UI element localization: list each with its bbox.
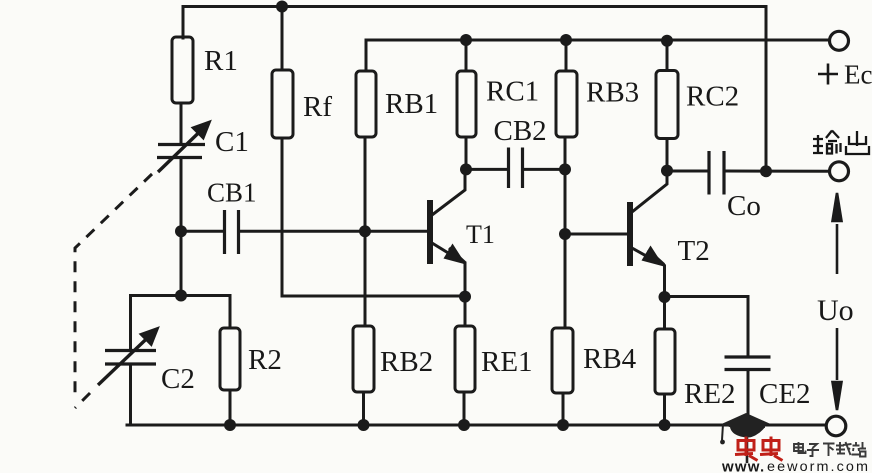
wire RB3 RB4 column [564, 137, 567, 328]
node C2 R2 [175, 290, 187, 302]
wire C2 R2 horizontal [131, 296, 231, 329]
terminal +Ec [830, 31, 849, 50]
dashed gang link line [75, 174, 152, 408]
wire C1 to CB1 node lead [180, 158, 183, 296]
svg-text:T1: T1 [466, 220, 495, 249]
wire RC1 bottom lead [465, 137, 468, 169]
capacitor C2 (variable) [105, 351, 156, 365]
node RE1 bottom [458, 419, 470, 431]
wire RC1 node to CB2 [466, 168, 506, 171]
junction node dots [175, 1, 772, 432]
wire T2 emitter to RE2 [663, 266, 666, 329]
watermark gray site name drawn as strokes [794, 442, 866, 457]
svg-text:Ec: Ec [844, 60, 872, 90]
wire RE1 bottom lead [463, 392, 466, 425]
node CB2 RB3 [559, 163, 571, 175]
transistor T2 [630, 171, 667, 272]
wire output vertical drop [765, 7, 768, 172]
arrow of C2 [98, 327, 159, 385]
label +Ec [818, 64, 838, 85]
wire RB1 RB2 column [364, 137, 367, 326]
svg-text:RB3: RB3 [586, 77, 639, 109]
svg-text:Uo: Uo [817, 294, 854, 327]
svg-text:CB2: CB2 [494, 115, 547, 147]
resistor RB4 [552, 328, 573, 393]
svg-text:C2: C2 [161, 363, 195, 395]
resistor RB1 [356, 71, 376, 137]
node T1 emitter [459, 291, 471, 303]
wire base T1 right segment [240, 230, 427, 233]
svg-text:Rf: Rf [303, 91, 332, 123]
svg-text:RB1: RB1 [385, 88, 438, 120]
wire base T2 [565, 233, 627, 236]
wire RB3 top lead [565, 40, 568, 71]
svg-text:www.: www. [721, 459, 765, 473]
resistor RB3 [556, 71, 577, 137]
arrow of C1 [158, 121, 211, 173]
node CB1 left [175, 225, 187, 237]
node T2 base divider [559, 228, 571, 240]
resistor RC2 [656, 71, 678, 139]
node RC1 rail [460, 34, 472, 46]
svg-text:eeworm.com: eeworm.com [767, 458, 870, 473]
terminal bottom [826, 416, 846, 436]
arrow Uo down [833, 328, 842, 410]
svg-text:RB2: RB2 [380, 346, 433, 378]
svg-text:C1: C1 [215, 126, 249, 158]
wire Rf bottom lead and feedback to T1 emitter [282, 138, 465, 296]
resistor R1 [172, 37, 193, 103]
svg-text:CE2: CE2 [759, 378, 811, 410]
capacitor Co [709, 151, 724, 195]
watermark tassel cord over circuit [746, 428, 749, 463]
node T1 base divider [359, 225, 371, 237]
wire R2 bottom lead [229, 390, 232, 425]
wire CE2 bottom lead [747, 370, 750, 426]
wire RE2 bottom lead [663, 394, 666, 425]
node RB2 bottom [358, 419, 370, 431]
svg-text:RE2: RE2 [684, 378, 736, 410]
node RB3 rail [560, 34, 572, 46]
wire base T1 left segment [181, 230, 223, 233]
node RB4 bottom [557, 419, 569, 431]
node RC2 rail [661, 35, 673, 47]
wire top rail from R1 top to output drop [183, 7, 766, 39]
resistor RE2 [655, 329, 675, 394]
svg-text:T2: T2 [678, 235, 710, 267]
svg-text:RC2: RC2 [686, 81, 739, 113]
capacitor CB2 [509, 148, 523, 189]
node RE2 bottom [659, 419, 671, 431]
wire RB4 bottom lead [562, 393, 565, 425]
node output junction [760, 165, 772, 177]
svg-text:RE1: RE1 [481, 346, 533, 378]
capacitor CB1 [225, 210, 239, 254]
capacitor C1 (variable) [157, 145, 205, 158]
watermark graduation cap logo [720, 413, 769, 444]
wire RC2 node to Co [667, 170, 707, 173]
watermark chongchong red text [735, 437, 783, 461]
svg-text:CB1: CB1 [207, 178, 257, 208]
wire T2 emitter to CE2 [665, 297, 749, 357]
arrow Uo up [833, 193, 842, 274]
transistor T1 [430, 169, 465, 270]
svg-text:Co: Co [727, 190, 761, 222]
svg-text:RB4: RB4 [583, 343, 637, 375]
resistor RB2 [353, 326, 374, 392]
resistor Rf [272, 70, 293, 138]
terminal output [830, 162, 849, 181]
wire C2 left leg lower [129, 364, 132, 425]
wire T1 emitter to RE1 [464, 263, 467, 326]
node T2 emitter [659, 291, 671, 303]
capacitor CE2 [725, 357, 771, 370]
wire RB2 bottom lead [362, 392, 365, 425]
wire RC1 top lead [465, 40, 468, 71]
wire Rf top lead [281, 7, 284, 71]
node R2 bottom [224, 419, 236, 431]
wire RC2 top lead [666, 41, 669, 71]
resistor RE1 [455, 326, 475, 392]
wire R1 to C1 lead [180, 103, 183, 144]
wire bottom rail [127, 424, 826, 427]
wire CB2 to RB3 column [524, 168, 565, 171]
wire RC2 bottom lead [666, 139, 669, 172]
resistor R2 [220, 328, 240, 390]
resistor RC1 [457, 71, 476, 137]
wire +Ec rail [366, 40, 828, 71]
label shuchu (output) drawn as strokes [813, 131, 869, 155]
node T1 collector [460, 163, 472, 175]
node Rf top [276, 1, 288, 13]
svg-text:R2: R2 [248, 344, 282, 376]
wire C2 left leg upper [129, 296, 132, 351]
wire Co to output node [726, 170, 829, 173]
svg-text:RC1: RC1 [486, 76, 539, 108]
svg-text:R1: R1 [204, 45, 238, 77]
node T2 collector [661, 165, 673, 177]
